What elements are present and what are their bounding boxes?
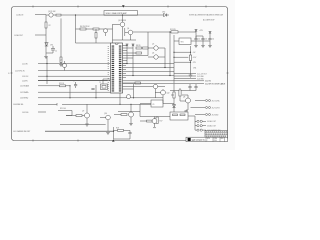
svg-text:Q6: Q6 bbox=[152, 53, 154, 55]
wire vertical x133 bbox=[132, 44, 134, 76]
wire IC pin stub right 15 bbox=[123, 88, 134, 90]
transistor Q15 bbox=[127, 95, 131, 99]
resistor R18 bbox=[118, 129, 124, 131]
wire vertical x174 bbox=[173, 35, 175, 84]
diode CR2 bbox=[162, 13, 169, 16]
svg-text:R18: R18 bbox=[116, 128, 119, 130]
junction bbox=[130, 104, 131, 105]
svg-text:J7-3 GND: J7-3 GND bbox=[212, 114, 220, 116]
svg-text:J6-1 RD: J6-1 RD bbox=[205, 81, 212, 83]
wire vertical x70 bbox=[69, 86, 71, 98]
svg-text:C2: C2 bbox=[198, 39, 200, 41]
transistor Q6 bbox=[154, 55, 158, 59]
sheet title box bbox=[104, 11, 138, 16]
pin boxes right column bbox=[119, 46, 122, 92]
svg-text:SIZE: SIZE bbox=[207, 138, 210, 140]
wire bbox=[45, 130, 114, 132]
svg-text:J3-4 ENBL SEL: J3-4 ENBL SEL bbox=[13, 104, 24, 106]
capacitor C6 bbox=[194, 84, 197, 91]
svg-text:R8 R9: R8 R9 bbox=[136, 45, 140, 47]
filter box FL1 bbox=[170, 112, 188, 120]
diode CR3 bbox=[172, 105, 175, 108]
wire Q4 emitter bbox=[130, 35, 132, 40]
wire vertical x120 lower bbox=[119, 93, 121, 104]
svg-text:C7: C7 bbox=[73, 80, 75, 82]
svg-text:Q5: Q5 bbox=[152, 44, 154, 46]
svg-text:apple computer inc.: apple computer inc. bbox=[192, 138, 206, 141]
wire q13 bbox=[153, 117, 156, 128]
wire k1 right bbox=[163, 103, 174, 105]
wire Q3 collector up bbox=[122, 15, 124, 22]
wire Q3 emitter down bbox=[113, 27, 137, 40]
svg-text:J8-2 AC OUT: J8-2 AC OUT bbox=[207, 125, 216, 128]
wire IC pin stub right 1 bbox=[123, 45, 128, 47]
ground bbox=[85, 124, 89, 126]
transistor Q1 bbox=[49, 13, 53, 17]
wire q11 stub bbox=[64, 61, 66, 71]
svg-text:Q2: Q2 bbox=[60, 60, 62, 62]
wire IC pin stub right 6 bbox=[123, 57, 134, 59]
svg-text:J1-2 AC RET: J1-2 AC RET bbox=[14, 34, 23, 37]
wire vertical x47 lower bbox=[46, 57, 48, 84]
junction bbox=[119, 104, 120, 105]
junction bbox=[69, 85, 70, 86]
wire bbox=[38, 70, 110, 72]
wire +12 rail bbox=[195, 32, 197, 39]
svg-text:0500: 0500 bbox=[214, 140, 217, 142]
wire bottom mid bbox=[62, 103, 151, 105]
resistor R2 bbox=[45, 22, 47, 28]
svg-text:J3-3 WREQ: J3-3 WREQ bbox=[20, 98, 29, 100]
junction bbox=[126, 63, 127, 64]
resistor R13 bbox=[173, 92, 175, 98]
connector row 1 bbox=[174, 73, 196, 75]
svg-text:J2-2 SYNC IN: J2-2 SYNC IN bbox=[15, 70, 25, 72]
svg-text:Q3 2N4258: Q3 2N4258 bbox=[118, 20, 126, 22]
transistor Q13 bbox=[152, 119, 157, 124]
junction bbox=[164, 67, 165, 68]
wire bbox=[38, 103, 57, 105]
svg-text:K1: K1 bbox=[153, 104, 155, 106]
power arrow 127 bbox=[126, 44, 129, 46]
wire vertical x140 bbox=[139, 104, 141, 116]
wire vertical to rows bbox=[195, 116, 197, 130]
svg-text:C3: C3 bbox=[205, 39, 207, 41]
svg-text:C4: C4 bbox=[212, 39, 214, 41]
svg-text:J7-2 OUT B: J7-2 OUT B bbox=[212, 107, 221, 109]
wire vertical x190 bbox=[190, 46, 192, 75]
wire bus right 4 bbox=[123, 75, 175, 77]
junction bbox=[190, 62, 191, 63]
connector row 9 bbox=[195, 120, 197, 122]
svg-text:VIDEO / READ WRITE AMP: VIDEO / READ WRITE AMP bbox=[106, 12, 128, 15]
svg-text:Q14: Q14 bbox=[104, 113, 107, 115]
wire bus right 1 bbox=[123, 63, 175, 65]
power arrow 133 bbox=[132, 44, 135, 46]
junction bbox=[190, 52, 191, 53]
wire bbox=[38, 63, 110, 65]
wire vertical x133 lower bbox=[133, 84, 135, 98]
wire bus right 2 bbox=[123, 67, 175, 69]
svg-text:J5-3 GND: J5-3 GND bbox=[197, 78, 205, 80]
wire vertical into IC top bbox=[112, 24, 114, 43]
svg-text:R17: R17 bbox=[160, 121, 163, 123]
wire mid lower bbox=[118, 111, 140, 113]
zone tick top 4 bbox=[167, 6, 169, 8]
wire bottom bbox=[114, 136, 131, 139]
svg-text:J3-5 PH0: J3-5 PH0 bbox=[22, 112, 28, 114]
svg-text:J8-1 AC OUT: J8-1 AC OUT bbox=[207, 120, 216, 123]
zone tick top 1 bbox=[32, 6, 34, 8]
wire long vertical V2 bbox=[60, 18, 62, 57]
crystal Y1 bbox=[101, 84, 108, 90]
svg-text:CR2: CR2 bbox=[162, 12, 165, 14]
junction bbox=[173, 52, 174, 53]
resistor R4 bbox=[80, 28, 86, 30]
resistor R20 bbox=[189, 55, 191, 61]
ground bbox=[129, 124, 133, 126]
svg-text:J4-1 CHASSIS GND RET: J4-1 CHASSIS GND RET bbox=[13, 130, 30, 133]
ground bbox=[59, 63, 63, 67]
wire q12 bbox=[155, 89, 163, 104]
resistor R3 bbox=[60, 57, 62, 63]
connector row 3 bbox=[174, 78, 196, 80]
wire IC pin stub right 10 bbox=[123, 63, 128, 65]
wire vertical q7 bbox=[155, 89, 157, 98]
wire bbox=[38, 91, 110, 93]
resistor inside FL1 a bbox=[173, 114, 178, 116]
wire IC pin stub right 7 bbox=[123, 60, 128, 62]
connector row 2 bbox=[174, 75, 196, 77]
transistor Q10 bbox=[129, 112, 134, 117]
ground bbox=[184, 110, 188, 113]
zone tick bottom 2 bbox=[77, 140, 79, 142]
transistor Q8 bbox=[186, 98, 191, 103]
resistor R5 bbox=[93, 28, 99, 30]
ground bbox=[208, 41, 212, 48]
wire IC pin stub right 4 bbox=[123, 52, 137, 54]
wire IC pin stub right 5 bbox=[123, 55, 149, 57]
capacitor C2 bbox=[194, 36, 197, 41]
resistor R10 bbox=[136, 52, 142, 54]
svg-text:C: C bbox=[207, 140, 208, 142]
transistor Q14 bbox=[106, 115, 111, 120]
svg-text:ALL CAPS IN UF: ALL CAPS IN UF bbox=[203, 19, 215, 22]
connector row 10 bbox=[197, 125, 199, 127]
wire stub tick bbox=[56, 103, 58, 106]
wire vertical x148 bbox=[147, 32, 149, 56]
pin boxes left column bbox=[112, 46, 115, 92]
zone tick bottom 3 (arrow marker) bbox=[112, 139, 115, 141]
power arrow 210 bbox=[209, 32, 212, 35]
svg-text:J2-1 VID: J2-1 VID bbox=[22, 63, 29, 65]
junction bbox=[75, 14, 76, 15]
svg-text:C1: C1 bbox=[55, 51, 57, 53]
op-amp U1 IC body bbox=[108, 43, 122, 93]
title block bbox=[186, 131, 228, 143]
resistor R9 bbox=[143, 47, 149, 49]
wire bbox=[38, 97, 163, 99]
capacitor C9 bbox=[128, 130, 131, 136]
svg-text:J2-4 EN: J2-4 EN bbox=[22, 80, 28, 82]
transistor Q7 bbox=[153, 84, 157, 88]
ground bbox=[194, 41, 198, 48]
svg-text:J8-3 CHASSIS GND: J8-3 CHASSIS GND bbox=[207, 129, 222, 132]
junction bbox=[169, 31, 170, 32]
wire IC pin stub right 2 bbox=[123, 47, 134, 49]
wire r21 bbox=[58, 111, 72, 116]
wire k1 left bbox=[140, 103, 151, 105]
capacitor C7 bbox=[74, 82, 77, 88]
svg-text:Q9: Q9 bbox=[82, 111, 84, 113]
wire vr1 left bbox=[174, 40, 179, 42]
zone tick bottom 1 bbox=[32, 140, 34, 142]
ground bbox=[106, 132, 110, 134]
junction bbox=[113, 131, 114, 132]
resistor R22 bbox=[60, 85, 66, 87]
resistor R6 bbox=[95, 33, 97, 39]
wire to Q3 bbox=[113, 23, 121, 25]
svg-text:J3-1 WDATA: J3-1 WDATA bbox=[20, 85, 30, 88]
resistor R14 bbox=[179, 90, 181, 96]
ground bbox=[189, 75, 193, 77]
resistor R11 bbox=[135, 82, 141, 84]
zone tick top 3 (arrow marker) bbox=[122, 5, 125, 7]
svg-text:VR1: VR1 bbox=[181, 42, 184, 44]
connector row 5 bbox=[123, 83, 205, 85]
wire bbox=[38, 80, 110, 82]
junction bbox=[132, 75, 133, 76]
connector row 7 bbox=[191, 107, 206, 109]
transistor Q9 bbox=[85, 113, 90, 118]
relay K1 box bbox=[151, 100, 163, 107]
wire mid low horizontal bbox=[60, 124, 106, 126]
svg-text:J1-1 AC IN: J1-1 AC IN bbox=[16, 13, 24, 16]
connector row 8 bbox=[195, 114, 205, 116]
transistor Q3 bbox=[120, 22, 125, 27]
svg-text:R12 5W: R12 5W bbox=[170, 29, 176, 31]
ground bbox=[44, 55, 48, 59]
ground bbox=[201, 41, 205, 48]
transistor Q2 bbox=[104, 29, 108, 33]
wire x170 up bbox=[169, 32, 171, 40]
junction bbox=[46, 63, 47, 64]
svg-text:J3-2 RDATA: J3-2 RDATA bbox=[20, 91, 29, 94]
wire q14 bbox=[100, 118, 108, 132]
svg-text:CR4: CR4 bbox=[193, 68, 196, 70]
resistor R8 bbox=[136, 47, 142, 49]
pin numbers column bbox=[107, 46, 109, 92]
connector row 6 bbox=[195, 100, 205, 102]
svg-text:R2: R2 bbox=[49, 25, 51, 27]
capacitor C8 bbox=[91, 89, 94, 90]
wire Q4 base bbox=[125, 28, 128, 36]
junction bbox=[133, 97, 134, 98]
svg-text:R21 100: R21 100 bbox=[60, 108, 66, 110]
wire IC left hook bbox=[103, 79, 111, 84]
wire FL1 left bbox=[140, 116, 170, 118]
diode CR1 bbox=[45, 43, 48, 47]
resistor R12 bbox=[171, 31, 178, 33]
wire bbox=[38, 85, 70, 87]
transistor Q4 bbox=[128, 30, 133, 35]
junction bbox=[122, 14, 123, 15]
wire vertical x96b bbox=[95, 85, 97, 98]
svg-text:Q12: Q12 bbox=[167, 93, 170, 95]
wire vertical x170 bbox=[169, 40, 171, 76]
wire IC pin stub right 14 bbox=[123, 77, 127, 79]
wire vertical V3 bbox=[75, 15, 77, 43]
wire Q4 collector right bbox=[133, 31, 176, 33]
resistor inside FL1 b bbox=[180, 114, 185, 116]
wire AC vertical bbox=[45, 15, 47, 56]
capacitor C4 bbox=[208, 34, 211, 41]
wire IC pin stub right 3 bbox=[123, 50, 128, 52]
wire IC pin stub right 11 bbox=[123, 65, 127, 67]
wire mid horizontal bbox=[76, 28, 113, 30]
zone tick top 5 bbox=[205, 6, 207, 8]
wire analog top bbox=[170, 84, 196, 112]
svg-text:Q1 R1 10K: Q1 R1 10K bbox=[48, 11, 56, 13]
connector row 4 bbox=[123, 80, 205, 82]
transistor Q12 bbox=[161, 90, 166, 95]
capacitor C3 bbox=[196, 36, 205, 41]
junction bbox=[69, 97, 70, 98]
capacitor C1 bbox=[46, 46, 55, 53]
resistor R1 bbox=[56, 14, 61, 16]
wire bbox=[76, 42, 111, 44]
wire bbox=[35, 14, 46, 16]
wire bbox=[35, 34, 46, 36]
wire vr1 right bbox=[191, 40, 210, 42]
resistor R16 bbox=[121, 114, 127, 116]
zone tick right bbox=[227, 72, 229, 74]
svg-text:Y1: Y1 bbox=[99, 82, 101, 84]
wire bottom cluster vertical bbox=[113, 127, 115, 139]
resistor R15 bbox=[76, 115, 82, 117]
resistor R19 bbox=[147, 120, 153, 122]
border frame bbox=[12, 7, 228, 141]
wire FL1 right bbox=[188, 115, 195, 117]
wire bbox=[38, 111, 46, 113]
svg-text:J2-3 CLK: J2-3 CLK bbox=[22, 76, 29, 78]
svg-text:DWG: DWG bbox=[214, 138, 217, 140]
svg-text:REV: REV bbox=[221, 138, 224, 140]
wire vertical x165 bbox=[164, 48, 166, 68]
svg-text:Q8: Q8 bbox=[183, 97, 185, 99]
svg-text:NOTES: ALL RESISTOR VALUES IN: NOTES: ALL RESISTOR VALUES IN OHMS 1/4W bbox=[189, 13, 223, 16]
wire IC pin stub right 13 bbox=[123, 73, 127, 75]
junction bbox=[173, 57, 174, 58]
power arrow 196 bbox=[195, 30, 198, 33]
wire vertical x127 bbox=[126, 44, 128, 64]
svg-text:R4 220 R5 1K: R4 220 R5 1K bbox=[80, 26, 90, 28]
transistor Q11 bbox=[63, 64, 67, 68]
wire bus right 3 bbox=[123, 71, 175, 73]
transistor Q5 bbox=[154, 46, 158, 50]
zone tick left bbox=[11, 72, 13, 74]
junction bbox=[169, 75, 170, 76]
svg-text:J7-1 OUT A: J7-1 OUT A bbox=[212, 99, 221, 102]
svg-text:J6-2 WR TO DRIVE CABLE: J6-2 WR TO DRIVE CABLE bbox=[205, 82, 226, 85]
capacitor C5 bbox=[188, 84, 191, 91]
wire analog mesh bbox=[171, 95, 188, 98]
wire IC pin stub right 9 bbox=[123, 86, 154, 88]
svg-text:Q4: Q4 bbox=[127, 28, 129, 30]
zone tick top 2 bbox=[77, 6, 79, 8]
resistor R17 bbox=[156, 117, 158, 124]
junction bbox=[95, 97, 96, 98]
regulator VR1 box bbox=[179, 38, 191, 45]
connector row 11 bbox=[197, 129, 199, 131]
wire IC pin stub right 12 bbox=[123, 69, 127, 71]
junction bbox=[46, 76, 47, 77]
wire bbox=[38, 75, 110, 77]
wire top long bbox=[73, 14, 162, 16]
wire IC pin stub right 8 bbox=[123, 82, 136, 84]
